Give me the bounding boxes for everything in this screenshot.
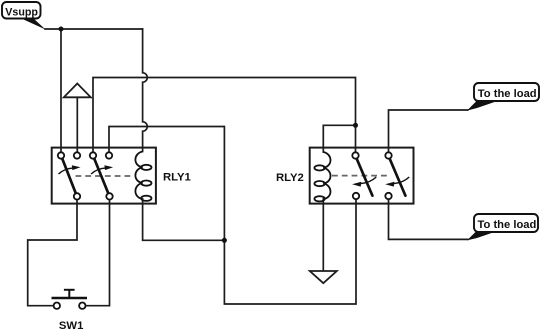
svg-text:To the load: To the load — [478, 219, 537, 231]
svg-text:RLY1: RLY1 — [163, 171, 191, 183]
svg-text:Vsupp: Vsupp — [5, 6, 38, 18]
svg-text:RLY2: RLY2 — [276, 172, 304, 184]
svg-text:To the load: To the load — [478, 88, 537, 100]
svg-text:SW1: SW1 — [59, 320, 83, 330]
